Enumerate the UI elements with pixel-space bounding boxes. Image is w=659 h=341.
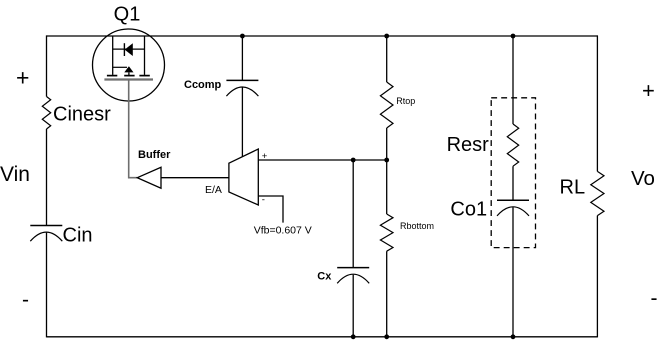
wire left rail middle — [46, 129, 48, 226]
svg-text:-: - — [651, 287, 658, 310]
capacitor Ccomp — [184, 79, 258, 96]
resistor RL — [560, 171, 605, 215]
wire left rail upper — [46, 35, 48, 96]
resistor Cinesr — [42, 97, 111, 130]
svg-text:+: + — [642, 78, 655, 103]
wire divider bottom — [386, 251, 388, 337]
resistor Resr — [447, 124, 519, 166]
svg-text:+: + — [16, 65, 29, 91]
svg-text:Rtop: Rtop — [396, 96, 415, 106]
svg-text:Cx: Cx — [317, 271, 332, 283]
capacitor Cin — [30, 225, 92, 247]
wire output cap bottom — [512, 207, 514, 336]
wire right rail lower — [596, 216, 598, 338]
svg-text:-: - — [22, 289, 29, 312]
svg-text:Buffer: Buffer — [138, 149, 171, 161]
resistor Rtop — [380, 82, 415, 128]
node divider mid — [384, 158, 389, 163]
svg-text:E/A: E/A — [205, 184, 222, 196]
wire bottom rail — [47, 336, 598, 338]
svg-text:Q1: Q1 — [114, 4, 141, 26]
resistor Rbottom — [380, 214, 434, 251]
wire top rail — [47, 35, 598, 37]
transistor Q1 — [93, 4, 165, 101]
op-amp buffer — [137, 149, 171, 188]
wire right rail upper — [596, 35, 598, 171]
capacitor Cx — [317, 268, 369, 284]
svg-text:Co1: Co1 — [450, 199, 487, 221]
wire gate (gray) — [129, 80, 138, 178]
wire Ccomp top — [241, 36, 243, 80]
capacitor Co1 — [450, 199, 529, 221]
node output cap top rail — [511, 34, 516, 39]
svg-text:Resr: Resr — [447, 134, 490, 156]
svg-text:RL: RL — [560, 176, 586, 198]
node divider bottom rail — [384, 334, 389, 339]
svg-text:Vo: Vo — [631, 167, 655, 190]
wire buffer input — [161, 177, 229, 179]
wire Cx bottom — [352, 275, 354, 337]
svg-text:Vin: Vin — [0, 163, 30, 186]
wire output cap middle — [512, 166, 514, 200]
dashed box output cap model — [491, 98, 535, 248]
wire left rail lower — [46, 233, 48, 338]
node FB junction — [351, 158, 356, 163]
svg-text:Ccomp: Ccomp — [184, 79, 222, 91]
wire Ccomp bottom — [241, 88, 243, 158]
svg-text:Rbottom: Rbottom — [400, 221, 434, 231]
wire divider middle — [386, 128, 388, 214]
svg-text:Cinesr: Cinesr — [53, 103, 111, 125]
wire output cap branch top — [512, 36, 514, 124]
node Ccomp top rail — [240, 34, 245, 39]
svg-text:Cin: Cin — [63, 225, 93, 247]
wire E/A plus input — [258, 159, 386, 161]
svg-text:Vfb=0.607 V: Vfb=0.607 V — [254, 225, 312, 237]
op-amp U1 E/A — [205, 149, 268, 206]
wire E/A minus input — [258, 196, 283, 223]
node output cap bottom rail — [511, 334, 516, 339]
wire divider top — [386, 36, 388, 82]
node Cx bottom rail — [351, 334, 356, 339]
node divider top rail — [384, 34, 389, 39]
wire Cx top — [352, 160, 354, 268]
